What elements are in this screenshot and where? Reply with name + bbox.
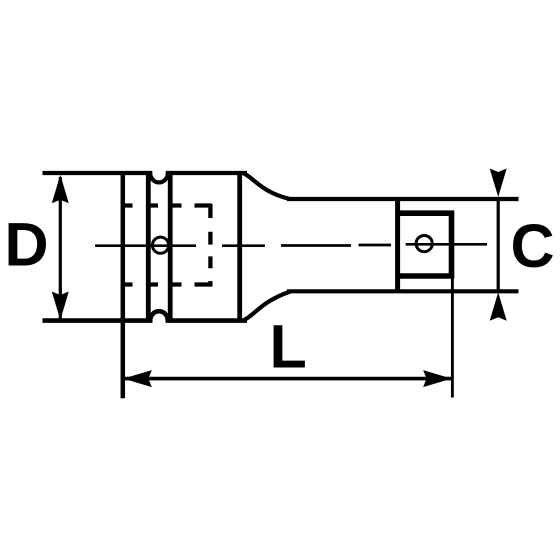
svg-text:L: L: [270, 312, 307, 380]
svg-text:D: D: [5, 211, 49, 279]
svg-text:C: C: [511, 212, 555, 280]
